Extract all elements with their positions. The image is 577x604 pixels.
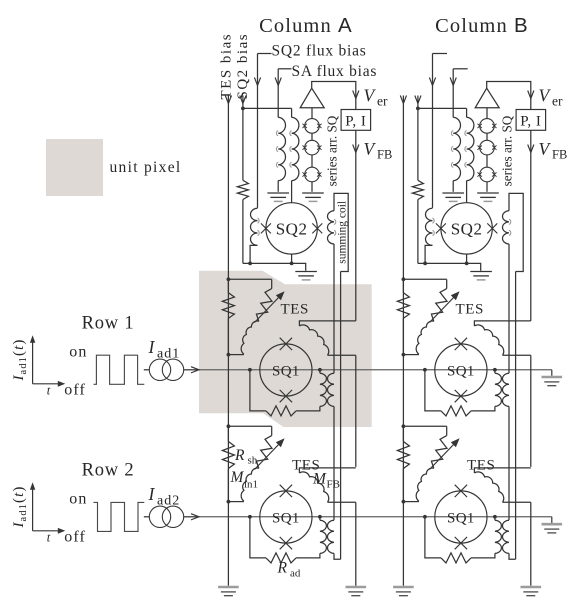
summing loop text-box route (column B) [509,193,523,271]
series array SQUID 1 (column A) [303,119,322,134]
SQ2 bias coil (column B) [465,108,474,202]
svg-text:SA flux bias: SA flux bias [292,63,378,80]
ground (row 1 right) [542,377,563,386]
label SQ2 flux bias [272,43,367,60]
series array SQUID 2 (column A) [303,140,322,155]
output transformer left winding (row 2, column B) [495,517,502,554]
shunt resistor R_sh (row 2, column B) [397,426,409,468]
address resistor R_ad (row 2, column A) [266,553,296,563]
R_ad loop right (row 2, column A) [296,553,320,558]
shunt resistor R_sh (row 2, column A) [222,426,234,468]
amplifier triangle (column B) [475,88,499,108]
shunt resistor R_sh (row 1, column B) [397,279,409,318]
amplifier triangle (column A) [300,88,324,108]
row 1 address line [200,369,552,371]
svg-text:SQ1: SQ1 [272,511,300,527]
svg-text:FB: FB [552,148,567,162]
label Ver (column B) [539,86,563,109]
series array links (column B) [486,133,488,192]
shunt resistor R_sh (row 1, column A) [222,279,234,318]
address resistor R_ad (row 1, column A) [266,406,296,416]
summing line mid (column B) [508,406,510,520]
svg-text:FB: FB [377,148,392,162]
TES arrow (row 1, column A) [255,291,285,322]
series array amplifier input wire (column A) [311,108,313,119]
summing loop return line (column A) [340,272,342,560]
ground (SQ2, column B) [470,272,492,280]
label TES (row 2, column B) [467,458,495,474]
summing coil (column B) [502,211,510,244]
svg-text:t: t [47,531,51,545]
TES bias line (column A) [225,96,231,586]
Row 1 current source Iad1 [144,359,184,380]
row 2 address line [200,516,552,518]
Row 1 label on [69,344,87,361]
label M_in1 [230,469,259,491]
TES arrow (row 1, column B) [430,291,460,322]
legend: unit pixel swatch [46,139,103,196]
label R_ad [277,560,301,580]
bias tap wire (row 1, column B) [402,277,447,281]
ground (SQ2, column A) [295,272,317,280]
R_ad loop right (row 2, column B) [471,553,495,558]
feedback elbow (row 2, column A) [299,468,355,473]
svg-text:ad: ad [290,568,301,580]
R_ad loop left (row 2, column B) [425,517,441,558]
SQ2 bias coil (column A) [290,108,299,202]
SQ2 bottom stub (column B) [466,254,468,263]
summing loop text-box route (column A) [334,193,348,271]
feedback elbow (row 2, column B) [474,468,530,473]
ground (series array, column B) [477,193,499,201]
output transformer left winding (row 1, column A) [320,370,327,407]
svg-text:R: R [234,447,245,464]
SQ2 flux bias line (column A) [254,54,260,208]
Row 1 waveform axis [30,335,65,386]
SQ1 SQUID (row 2, column A) [260,485,312,550]
label SA flux bias [292,63,378,80]
R_sh lower wire (row 2, column B) [402,469,404,502]
feedback elbow (row 1, column B) [474,321,530,326]
ground (series array, column A) [302,193,324,201]
column B SQ2 flux bias stub [433,53,448,55]
svg-text:on: on [69,344,87,361]
label SQ2 bias (rotated) [235,33,251,100]
R_ad loop right (row 1, column A) [296,406,320,411]
output transformer left winding (row 1, column B) [495,370,502,407]
summing line upper (column B) [508,244,510,373]
input coil M_in (row 1, column B) [402,321,434,356]
svg-text:P, I: P, I [345,113,366,129]
label TES (row 1, column B) [456,302,484,318]
svg-text:TES: TES [281,302,309,318]
Row 1 address square wave [94,355,145,384]
Row 1 current source label Iad1 [148,337,181,362]
title Column B [435,14,529,37]
summing line mid (column A) [333,406,335,520]
SQ1 SQUID (row 1, column B) [435,338,487,403]
R_sh lower wire (row 1, column A) [227,318,229,354]
label TES bias (rotated) [219,33,235,100]
address resistor R_ad (row 2, column B) [441,553,471,563]
Row 2 label off [64,529,86,546]
feedback line to ground (row 2, column A) [355,502,357,586]
summing loop return line (column B) [515,272,517,560]
svg-text:in1: in1 [244,479,258,491]
Row 2 current source Iad2 [144,506,184,527]
SQ2 flux bias line (column B) [429,54,435,208]
svg-text:FB: FB [327,479,340,491]
SQ2 bottom wire (column B) [418,262,481,271]
Row 1 current source output arrow [184,367,200,373]
svg-text:sh: sh [248,455,258,467]
TES arrow (row 2, column A) [255,438,285,469]
svg-text:M: M [312,471,327,488]
SQ2 bias lower segment (column B) [417,200,419,264]
SA flux bias coil (column B) [451,117,460,191]
label R_sh [234,447,258,467]
series array SQUID 2 (column B) [478,140,497,155]
TES variable resistor (row 1, column A) [256,279,272,321]
P, I box (column A) [341,110,371,131]
svg-text:ad2: ad2 [157,494,180,509]
label TES (row 2, column A) [292,458,320,474]
label summing coil (rotated) [337,201,349,264]
summing line upper (column A) [333,244,335,373]
summing loop bottom elbow (column B) [509,553,516,559]
label VFB (column B) [539,139,568,162]
output transformer right winding (row 1, column A) [327,373,334,406]
Row 2 current source label Iad2 [148,484,181,509]
R_ad loop right (row 1, column B) [471,406,495,411]
label Ver (column A) [364,86,388,109]
input coil M_in (row 2, column A) [227,468,259,503]
Row 1 title [82,314,135,334]
label VFB (column A) [364,139,393,162]
TES bias line (column B) [400,96,406,586]
series array SQUID 3 (column B) [478,167,497,182]
SQ2 bias lower segment (column A) [242,200,244,264]
SQ2 bias resistor (column B) [412,180,423,199]
SQ2 input coil (column B) [425,208,434,263]
Row 2 waveform axis [30,482,65,533]
unit pixel shaded region (Row 1, Column A) [199,271,372,427]
column B SA flux bias stub [453,68,468,70]
SA flux bias coil (column A) [276,117,285,191]
svg-text:SQ2: SQ2 [451,220,483,239]
series array amplifier input wire (column B) [486,108,488,119]
SA flux bias line (column B) [450,69,456,118]
svg-text:SQ1: SQ1 [447,364,475,380]
label series arr. SQ (column B) [499,115,514,186]
SQ2 bias bus (column A) [243,107,292,109]
Row 2 address square wave [94,502,145,531]
feedback coil M_FB (row 2, column B) [474,472,530,502]
svg-text:SQ2 bias: SQ2 bias [235,33,251,100]
svg-text:on: on [69,491,87,508]
bias tap wire (row 1, column A) [227,277,272,281]
Row 2 title [82,461,135,481]
bias tap wire (row 2, column B) [402,424,447,428]
P, I box (column B) [516,110,546,131]
output transformer right winding (row 2, column A) [327,520,334,553]
R_ad loop left (row 1, column B) [425,370,441,411]
SQ1 SQUID (row 1, column A) [260,338,312,403]
svg-text:t: t [47,384,51,398]
R_ad loop left (row 2, column A) [250,517,266,558]
svg-text:R: R [277,560,288,577]
VFB feedback line from P,I (column A) [353,130,359,321]
Row 1 axis label Iad1(t) [11,338,29,381]
svg-text:I: I [148,337,156,357]
SQ2 bias bus (column B) [418,107,467,109]
feedback link to row 2 (row 1, column A) [355,355,357,467]
ground (feedback, column B) [521,587,542,596]
ground (TES bias return, column B) [393,587,414,596]
svg-text:er: er [552,94,563,109]
svg-text:TES bias: TES bias [219,33,235,100]
feedback line to ground (row 2, column B) [530,502,532,586]
feedback link to row 2 (row 1, column B) [530,355,532,467]
ground (row 2 right) [542,524,563,533]
output transformer right winding (row 2, column B) [502,520,509,553]
svg-text:TES: TES [467,458,495,474]
label TES (row 1, column A) [281,302,309,318]
amplifier output wire to P,I (column B) [487,82,534,110]
title Column A [259,14,353,37]
feedback elbow (row 1, column A) [299,321,355,326]
svg-text:series arr. SQ: series arr. SQ [324,115,339,186]
bias tap wire (row 2, column A) [227,424,272,428]
Row 2 axis label t [47,531,51,545]
row line junction dots (row 1, column A) [248,368,322,372]
SA flux bias line (column A) [275,69,281,118]
SQ2 flux bias leader [258,53,272,55]
summing coil (column A) [327,211,335,244]
SQ2 SQUID (column A) [261,203,322,254]
TES variable resistor (row 2, column A) [256,426,272,468]
TES variable resistor (row 1, column B) [431,279,447,321]
SQ1 SQUID (row 2, column B) [435,485,487,550]
feedback coil M_FB (row 1, column A) [299,325,355,355]
series array SQUID 1 (column B) [478,119,497,134]
amplifier output wire to P,I (column A) [312,82,359,110]
output transformer right winding (row 1, column B) [502,373,509,406]
TES variable resistor (row 2, column B) [431,426,447,468]
label series arr. SQ (column A) [324,115,339,186]
svg-text:off: off [64,382,86,399]
Row 2 current source output arrow [184,514,200,520]
legend: unit pixel label [110,159,182,176]
svg-text:Column A: Column A [259,14,353,37]
svg-text:ad1: ad1 [157,347,180,362]
Row 1 axis label t [47,384,51,398]
ground (SA flux coil, column B) [442,193,464,201]
row line junction dots (row 2, column A) [248,515,322,519]
address resistor R_ad (row 1, column B) [441,406,471,416]
SQ2 bias line (column A) [240,96,246,181]
svg-text:M: M [230,469,245,486]
feedback coil M_FB (row 1, column B) [474,325,530,355]
series array links (column A) [311,133,313,192]
label M_FB [312,471,340,491]
svg-text:SQ1: SQ1 [272,364,300,380]
row line junction dots (row 2, column B) [423,515,497,519]
SQ2 SQUID (column B) [436,203,497,254]
svg-text:off: off [64,529,86,546]
Row 1 label off [64,382,86,399]
SQ2 bias resistor (column A) [237,180,248,199]
input coil M_in (row 2, column B) [402,468,434,503]
svg-text:er: er [377,94,388,109]
svg-text:Row 1: Row 1 [82,314,135,334]
svg-text:summing coil: summing coil [337,201,349,264]
svg-text:series arr. SQ: series arr. SQ [499,115,514,186]
svg-text:Column B: Column B [435,14,529,37]
Row 2 label on [69,491,87,508]
input coil M_in (row 1, column A) [227,321,259,356]
SQ2 bias line (column B) [415,96,421,181]
ground (TES bias return, column A) [218,587,239,596]
svg-text:I: I [148,484,156,504]
TES arrow (row 2, column B) [430,438,460,469]
R_ad loop left (row 1, column A) [250,370,266,411]
row 1 line ground stub [551,370,553,376]
R_sh lower wire (row 2, column A) [227,469,229,502]
SQ2 bottom wire (column A) [243,262,306,271]
output transformer left winding (row 2, column A) [320,517,327,554]
svg-text:unit pixel: unit pixel [110,159,182,176]
R_sh lower wire (row 1, column B) [402,318,404,354]
SQ2 input coil (column A) [250,208,259,263]
svg-text:SQ2: SQ2 [276,220,308,239]
svg-text:SQ2 flux bias: SQ2 flux bias [272,43,367,60]
SQ2 bottom stub (column A) [291,254,293,263]
feedback coil M_FB (row 2, column A) [299,472,355,502]
VFB feedback line from P,I (column B) [528,130,534,321]
ground (SA flux coil, column A) [267,193,289,201]
svg-text:P, I: P, I [520,113,541,129]
Row 2 axis label Iad2(t) [11,485,29,528]
row line junction dots (row 1, column B) [423,368,497,372]
summing loop bottom elbow (column A) [334,553,341,559]
svg-text:Row 2: Row 2 [82,461,135,481]
series array SQUID 3 (column A) [303,167,322,182]
svg-text:SQ1: SQ1 [447,511,475,527]
ground (feedback, column A) [346,587,367,596]
row 2 line ground stub [551,517,553,523]
svg-text:TES: TES [456,302,484,318]
SA flux bias leader [278,68,291,70]
